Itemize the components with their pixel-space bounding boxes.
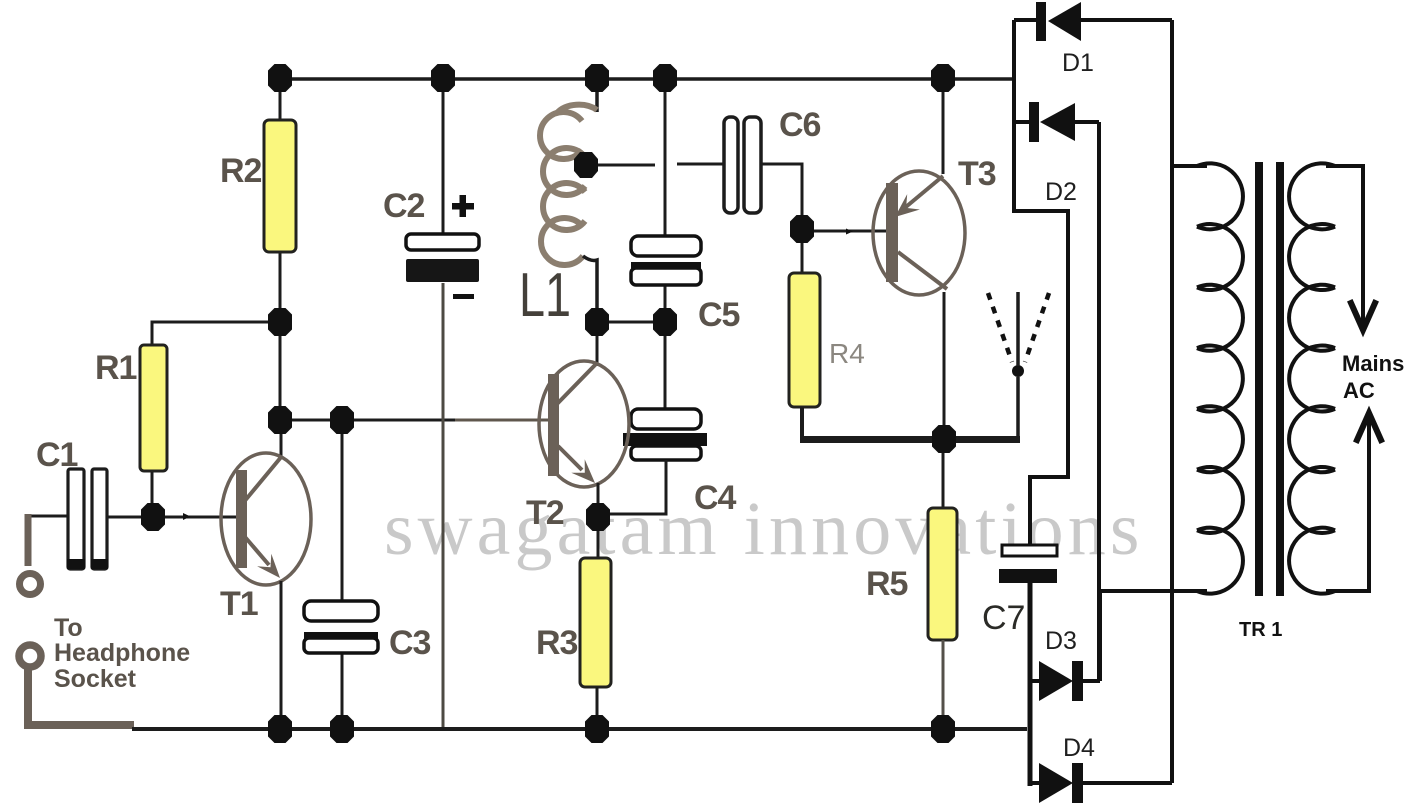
wire C3 branch — [341, 420, 344, 729]
signal arrow on T3 base wire — [846, 229, 853, 235]
wire D3 cathode vertical to transformer — [1098, 591, 1102, 681]
node T2-emitter — [586, 503, 610, 531]
svg-text:TR 1: TR 1 — [1239, 619, 1282, 641]
wire input return (brown) — [28, 666, 134, 725]
capacitor C6 — [724, 117, 738, 213]
svg-text:R5: R5 — [866, 565, 908, 603]
svg-text:R3: R3 — [536, 624, 578, 662]
wire C2 bottom — [442, 283, 445, 729]
inductor L1 — [595, 79, 599, 112]
wire L1/C5 bottom row — [597, 321, 665, 324]
node rail-T3 — [931, 64, 955, 92]
capacitor C4 — [631, 409, 701, 429]
transformer core — [1255, 162, 1263, 596]
svg-text:T1: T1 — [220, 585, 258, 623]
node ground-R3 — [585, 715, 609, 743]
node rail-R2 — [268, 64, 292, 92]
wire T2 collector — [596, 322, 599, 366]
transformer TR1 primary top lead — [1172, 164, 1207, 168]
bottom rail — [132, 727, 1027, 731]
node rail-C5 — [653, 64, 677, 92]
wire top positive rail — [280, 77, 1014, 81]
wire R4 bottom thick — [800, 407, 804, 438]
node rail-L1 — [585, 64, 609, 92]
svg-text:C6: C6 — [779, 106, 821, 144]
diode D4 — [1030, 781, 1040, 785]
node C5-C4 — [653, 308, 677, 336]
svg-text:R2: R2 — [220, 152, 262, 190]
resistor R3 — [580, 558, 611, 687]
wire R3 bottom — [596, 687, 599, 729]
wire node to R4 — [801, 243, 804, 273]
node T3-emitter — [932, 425, 956, 453]
transistor T2 — [539, 361, 629, 487]
node C3-top — [330, 406, 354, 434]
wire T3 emitter down — [943, 292, 946, 425]
wire node to T3 base — [814, 230, 886, 233]
diode D2 — [1014, 120, 1029, 124]
wire T1 emitter down — [280, 581, 283, 729]
wire C7 negative vertical — [1028, 583, 1033, 786]
wire R5 bottom — [942, 640, 945, 729]
node L1-bottom — [585, 308, 609, 336]
diode D1 — [1014, 18, 1036, 22]
svg-text:D3: D3 — [1045, 627, 1077, 655]
transistor T3 — [873, 171, 965, 295]
svg-text:To: To — [54, 614, 83, 642]
node ground-T1 — [268, 715, 292, 743]
svg-text:C2: C2 — [383, 187, 425, 225]
transformer TR1 primary bottom lead — [1100, 589, 1207, 593]
svg-text:D4: D4 — [1063, 734, 1095, 762]
diode D3 — [1030, 679, 1040, 683]
wire R2 branch vertical — [280, 79, 281, 458]
svg-text:T2: T2 — [526, 494, 564, 532]
plus sign C2 — [452, 203, 474, 210]
transformer TR1 primary winding — [1197, 163, 1243, 593]
svg-text:AC: AC — [1343, 378, 1375, 403]
node ground-R5 — [931, 715, 955, 743]
svg-text:C4: C4 — [694, 479, 737, 517]
wire R1 bottom — [151, 472, 154, 517]
svg-text:C5: C5 — [698, 296, 740, 334]
svg-text:Socket: Socket — [54, 665, 137, 693]
node T1-collector — [268, 406, 292, 434]
node R1-R2 — [268, 308, 292, 336]
terminal ring 1 — [20, 574, 41, 595]
wire C5 top branch — [664, 79, 667, 322]
antenna — [1016, 377, 1020, 439]
svg-text:T3: T3 — [958, 155, 996, 193]
wire C7 positive jog — [1012, 211, 1068, 545]
resistor R5 — [928, 508, 957, 640]
svg-text:Mains: Mains — [1342, 351, 1404, 376]
node ground-C3 — [330, 715, 354, 743]
capacitor C5 — [631, 236, 701, 256]
wire R1 top — [152, 322, 280, 344]
transformer secondary bottom lead with up arrow — [1326, 417, 1369, 591]
resistor R4 — [789, 273, 820, 407]
wire collector row — [280, 419, 455, 422]
svg-text:R4: R4 — [829, 338, 865, 369]
L1 tap node — [574, 152, 598, 178]
transistor T1 — [221, 453, 311, 585]
wire C4 bottom to T2 emitter — [602, 460, 666, 514]
wire D1-D4 right vertical — [1170, 20, 1174, 783]
wire T2 emitter to R3 — [597, 483, 600, 558]
node T1-base — [141, 503, 165, 531]
svg-text:L1: L1 — [519, 261, 571, 330]
svg-text:C7: C7 — [982, 599, 1025, 637]
wire rectifier left vertical — [1012, 20, 1016, 211]
resistor R1 — [140, 345, 167, 471]
transformer TR1 secondary winding — [1289, 163, 1335, 593]
terminal ring 2 — [19, 645, 41, 667]
wire T3 collector up — [942, 89, 945, 174]
node rail-C2 — [431, 64, 455, 92]
wire C1 left to terminal — [28, 515, 68, 518]
capacitor C7 — [1002, 545, 1057, 556]
signal arrow on T1 base wire — [183, 513, 191, 520]
svg-text:Headphone: Headphone — [54, 639, 190, 667]
wire D2 anode vertical — [1097, 122, 1101, 681]
transformer secondary top lead with down arrow — [1326, 166, 1363, 326]
wire C1 right to T1 base — [108, 516, 237, 519]
node C6-R4 — [790, 215, 814, 243]
wire C4 top — [664, 322, 667, 409]
svg-text:C3: C3 — [389, 624, 431, 662]
svg-text:D2: D2 — [1045, 178, 1077, 206]
svg-text:R1: R1 — [95, 349, 137, 387]
wire C6 right to node — [761, 164, 802, 216]
wire tap to C6 (with crossover gap) — [598, 164, 724, 165]
resistor R2 — [264, 120, 296, 252]
svg-text:D1: D1 — [1062, 49, 1094, 77]
minus sign C2 — [453, 294, 474, 299]
capacitor C3 — [304, 601, 378, 621]
wire node to R5 — [942, 442, 945, 508]
